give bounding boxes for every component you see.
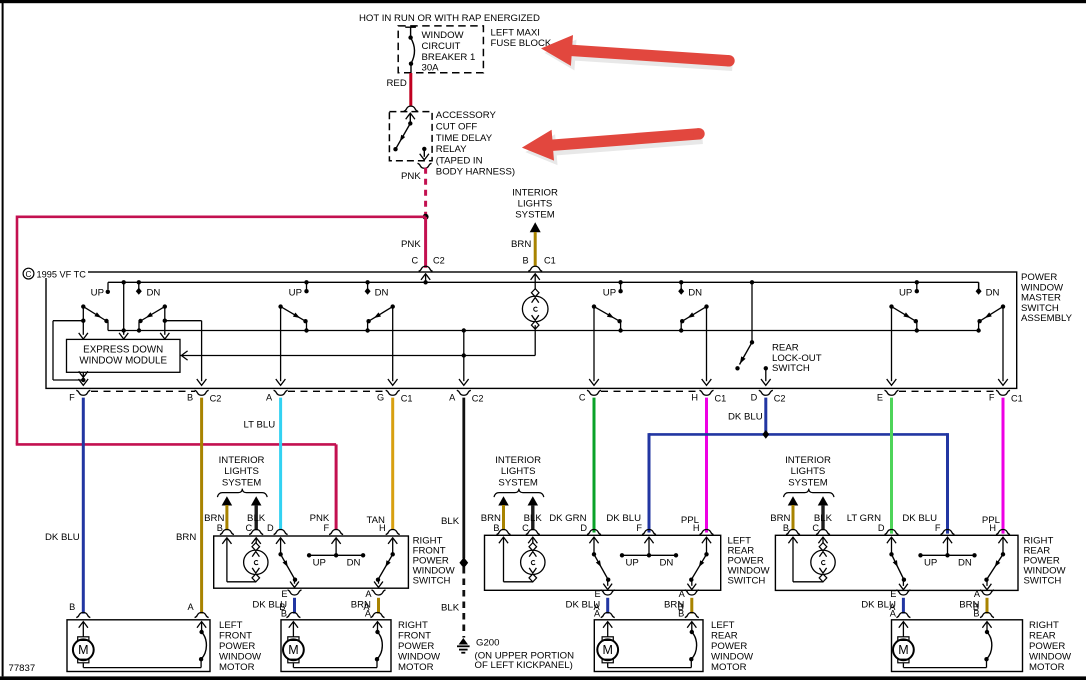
svg-text:REAR: REAR (711, 631, 738, 642)
svg-text:C: C (26, 270, 32, 279)
svg-text:RELAY: RELAY (436, 144, 467, 155)
svg-text:F: F (636, 523, 642, 533)
svg-text:DK BLU: DK BLU (728, 412, 763, 423)
wire DK BLU master D to rear switches F (649, 398, 948, 534)
master pin F (69, 390, 90, 402)
svg-text:B: B (69, 602, 75, 612)
svg-text:C1: C1 (1011, 393, 1023, 403)
label POWER WINDOW MASTER SWITCH ASSEMBLY (1021, 272, 1073, 324)
circuit breaker box (LEFT MAXI FUSE BLOCK) (398, 26, 483, 73)
LEFT REAR POWER WINDOW MOTOR box (594, 620, 703, 672)
label LEFT REAR POWER WINDOW SWITCH (728, 536, 771, 587)
wire module loop left bracket (53, 321, 83, 380)
switch illumination bulb (793, 537, 835, 582)
svg-text:G200: G200 (476, 638, 499, 649)
svg-text:BRN: BRN (511, 239, 531, 250)
svg-text:SYSTEM: SYSTEM (222, 477, 261, 488)
svg-text:POWER: POWER (711, 641, 747, 652)
switch up blade from pin H (983, 537, 1006, 589)
svg-text:UP: UP (91, 287, 104, 298)
label RIGHT REAR POWER WINDOW SWITCH (1024, 536, 1067, 587)
label REAR LOCK-OUT SWITCH (772, 343, 822, 375)
svg-text:ASSEMBLY: ASSEMBLY (1021, 313, 1073, 324)
svg-text:B: B (279, 602, 285, 612)
svg-text:M: M (602, 643, 612, 657)
express down window module (67, 339, 181, 372)
label LEFT FRONT POWER WINDOW MOTOR (219, 620, 262, 673)
master module bus (181, 351, 536, 360)
svg-text:POWER: POWER (1029, 641, 1065, 652)
interior lights system feed (top) (511, 188, 558, 266)
svg-text:UP: UP (924, 558, 937, 569)
svg-text:DN: DN (660, 558, 674, 569)
svg-text:C1: C1 (715, 393, 727, 403)
svg-text:B: B (187, 392, 193, 402)
wire PPL master F to right rear switch H (1002, 398, 1005, 534)
svg-text:PPL: PPL (681, 515, 700, 526)
svg-text:WINDOW: WINDOW (422, 30, 465, 41)
svg-text:MOTOR: MOTOR (711, 662, 747, 673)
wire PNK branch to right front switch (16, 216, 426, 530)
motor pins (594, 602, 699, 628)
label HOT IN RUN OR WITH RAP ENERGIZED (359, 13, 540, 24)
svg-text:OF LEFT KICKPANEL): OF LEFT KICKPANEL) (475, 660, 573, 671)
svg-text:A: A (449, 392, 456, 402)
driver window switch UP contact (91, 287, 110, 298)
interior lights system feed (770, 455, 834, 535)
window switch DN contact (678, 280, 702, 298)
switch illumination bulb (227, 538, 268, 582)
svg-text:RED: RED (387, 78, 407, 89)
svg-text:LIGHTS: LIGHTS (791, 466, 826, 477)
window switch DN blade (976, 304, 1005, 332)
svg-text:INTERIOR: INTERIOR (495, 455, 541, 466)
master pin A (266, 390, 288, 402)
wire DK BLU master F to left front motor (45, 398, 83, 614)
relay output contact (420, 147, 429, 160)
svg-text:DK BLU: DK BLU (902, 513, 937, 524)
svg-text:LT GRN: LT GRN (847, 513, 881, 524)
motor armature (73, 622, 201, 668)
window switch DN contact (976, 282, 1000, 298)
svg-text:CIRCUIT: CIRCUIT (422, 41, 461, 52)
svg-text:C: C (812, 523, 819, 533)
svg-text:WINDOW: WINDOW (398, 652, 441, 663)
svg-text:C: C (412, 256, 419, 266)
svg-text:UP: UP (899, 287, 912, 298)
motor pins (69, 602, 208, 628)
motor armature (597, 622, 691, 668)
svg-text:E: E (595, 589, 601, 599)
lock-out output to pin D (761, 366, 771, 385)
copyright 1995 VF TC (22, 267, 88, 280)
bulb to ground bus wire (534, 325, 536, 355)
driver switch DN blade (122, 304, 168, 332)
svg-text:LIGHTS: LIGHTS (224, 466, 259, 477)
master pin B C2 (187, 390, 221, 403)
switch up blade from pin H (687, 537, 708, 589)
svg-text:C2: C2 (774, 393, 786, 403)
label RIGHT FRONT POWER WINDOW MOTOR (398, 620, 441, 673)
switch down blade from pin D (889, 537, 908, 589)
svg-text:B: B (783, 523, 789, 533)
svg-text:A: A (365, 589, 372, 599)
svg-text:E: E (877, 392, 883, 402)
svg-text:DN: DN (347, 558, 361, 569)
wire to motor right (351, 598, 379, 619)
svg-text:DK GRN: DK GRN (549, 513, 586, 524)
window switch UP blade (889, 304, 919, 332)
svg-text:77837: 77837 (9, 663, 36, 674)
wire PNK dashed from relay (401, 168, 426, 215)
pin B entry arrow and lamp feed (531, 274, 540, 290)
switch illumination bulb (504, 537, 546, 582)
power window master switch assembly box (46, 272, 1017, 388)
svg-text:(TAPED IN: (TAPED IN (436, 155, 483, 166)
wire to motor right (959, 598, 987, 619)
svg-text:UP: UP (603, 287, 616, 298)
svg-text:PNK: PNK (310, 513, 330, 524)
ground G200 (457, 638, 574, 672)
svg-text:INTERIOR: INTERIOR (785, 455, 831, 466)
relay internal switch (393, 113, 415, 151)
BLK ground pin wire inside master (459, 328, 469, 385)
motor winding arc (199, 622, 207, 668)
svg-text:CUT OFF: CUT OFF (436, 122, 478, 133)
wire pivot to output pin (887, 307, 897, 386)
svg-text:EXPRESS DOWN: EXPRESS DOWN (83, 344, 163, 355)
svg-text:BREAKER 1: BREAKER 1 (422, 52, 476, 63)
svg-text:A: A (187, 602, 194, 612)
wire to motor left (566, 598, 608, 619)
svg-text:RIGHT: RIGHT (398, 620, 428, 631)
svg-text:LEFT: LEFT (711, 620, 735, 631)
svg-text:TIME DELAY: TIME DELAY (436, 133, 493, 144)
svg-text:WINDOW: WINDOW (219, 652, 262, 663)
master illumination bulb (522, 289, 548, 329)
switch pin entry arrows (499, 537, 711, 543)
svg-text:SYSTEM: SYSTEM (515, 210, 554, 221)
label LEFT REAR POWER WINDOW MOTOR (711, 620, 754, 673)
wire pivot to output pin (702, 307, 712, 386)
red callout arrow 2 (522, 128, 705, 165)
svg-text:POWER: POWER (398, 641, 434, 652)
svg-text:D: D (878, 523, 885, 533)
svg-text:C: C (522, 523, 529, 533)
svg-text:E: E (890, 589, 896, 599)
svg-text:A: A (889, 602, 896, 612)
switch down blade from pin D (278, 538, 299, 587)
svg-text:DN: DN (375, 287, 389, 298)
switch pin entry arrows (788, 537, 1007, 543)
svg-text:SWITCH: SWITCH (413, 576, 451, 587)
wire PNK to master switch pin C (401, 217, 426, 268)
svg-text:POWER: POWER (219, 641, 255, 652)
svg-text:A: A (974, 589, 981, 599)
label LEFT MAXI FUSE BLOCK (491, 28, 552, 49)
svg-text:D: D (580, 523, 587, 533)
switch pin entry arrows (222, 538, 397, 544)
svg-text:WINDOW MODULE: WINDOW MODULE (79, 356, 167, 367)
wire BRN master B to left front motor (176, 398, 202, 614)
svg-text:DN: DN (986, 287, 1000, 298)
LEFT REAR POWER WINDOW SWITCH box (485, 535, 721, 590)
driver switch pivot wires to module (79, 307, 170, 339)
switch top pin labels (549, 513, 713, 535)
svg-text:A: A (363, 602, 370, 612)
svg-text:DN: DN (958, 558, 972, 569)
switch UP DN rocker bar (620, 537, 678, 568)
svg-text:DK BLU: DK BLU (606, 513, 641, 524)
svg-text:LIGHTS: LIGHTS (501, 466, 536, 477)
window switch UP contact (289, 280, 309, 298)
svg-text:B: B (217, 523, 223, 533)
svg-text:SYSTEM: SYSTEM (788, 477, 827, 488)
svg-text:INTERIOR: INTERIOR (512, 188, 558, 199)
master pin H C1 (691, 390, 726, 403)
wire pivot to output pin (998, 307, 1008, 386)
switch up blade from pin H (374, 538, 395, 587)
svg-text:B: B (523, 256, 529, 266)
master pin G C1 (377, 390, 412, 403)
svg-text:C1: C1 (401, 393, 413, 403)
svg-text:SWITCH: SWITCH (1024, 576, 1062, 587)
RIGHT REAR POWER WINDOW SWITCH box (775, 535, 1018, 590)
svg-text:C2: C2 (472, 393, 484, 403)
wire LT GRN master E to right rear switch D (890, 398, 893, 534)
connector group dashes (91, 390, 996, 392)
wire pivot to output pin (388, 307, 398, 386)
master pin E (877, 390, 899, 402)
svg-text:UP: UP (289, 287, 302, 298)
svg-text:C2: C2 (433, 256, 445, 266)
motor winding arc (984, 622, 992, 668)
svg-text:G: G (377, 392, 384, 402)
motor winding arc (375, 622, 383, 668)
label RIGHT FRONT POWER WINDOW SWITCH (413, 536, 456, 587)
window switch DN blade (365, 304, 395, 332)
svg-text:SYSTEM: SYSTEM (498, 477, 537, 488)
wire pivot to output pin (589, 307, 599, 386)
master pin C (579, 390, 601, 402)
svg-text:D: D (751, 392, 758, 402)
svg-text:INTERIOR: INTERIOR (219, 455, 265, 466)
svg-text:PNK: PNK (401, 171, 421, 182)
motor pins (889, 602, 994, 628)
label WINDOW CIRCUIT BREAKER 1 30A (422, 30, 476, 73)
window switch UP blade (278, 304, 308, 332)
svg-text:C: C (579, 392, 586, 402)
window switch DN blade (679, 304, 709, 332)
master contact bus (108, 330, 979, 332)
svg-text:FRONT: FRONT (398, 631, 431, 642)
wire pivot bus to pin B (165, 321, 207, 386)
svg-text:LIGHTS: LIGHTS (518, 199, 553, 210)
wire to motor left (861, 598, 903, 619)
switch UP DN rocker bar (307, 538, 365, 569)
express down module feed wire (119, 280, 128, 339)
pin C C2 of master switch (412, 256, 445, 272)
svg-text:M: M (288, 643, 298, 657)
wire DK GRN master C to left rear switch D (593, 398, 596, 533)
svg-text:D: D (267, 523, 274, 533)
RIGHT FRONT POWER WINDOW SWITCH box (214, 536, 409, 588)
svg-text:PPL: PPL (982, 515, 1001, 526)
svg-text:F: F (69, 392, 75, 402)
svg-text:C1: C1 (544, 256, 556, 266)
svg-text:B: B (973, 602, 979, 612)
diagram number 77837 (9, 663, 36, 674)
motor armature (893, 622, 987, 668)
circuit breaker CB1 30A symbol (405, 27, 416, 73)
motor winding arc (689, 622, 697, 668)
switch output pins E and A (281, 589, 385, 599)
svg-text:TAN: TAN (367, 515, 386, 526)
wire RED from breaker to relay (387, 73, 411, 106)
svg-text:M: M (898, 643, 908, 657)
accessory cut off time delay relay box (389, 112, 432, 161)
master pin F C1 (989, 390, 1023, 403)
wire to motor right (664, 598, 692, 619)
LEFT FRONT POWER WINDOW MOTOR box (67, 620, 210, 672)
switch top pin labels (847, 513, 1010, 535)
svg-text:BRN: BRN (176, 532, 196, 543)
junction of PNK wire (423, 214, 429, 220)
wire pivot to output pin (276, 307, 286, 386)
connector at relay input (404, 106, 418, 111)
wire LT BLU master A to right front switch D (244, 398, 281, 530)
wire BLK master A to ground (441, 398, 468, 638)
switch UP DN rocker bar (918, 537, 976, 568)
switch output pins E and A (890, 589, 994, 599)
svg-text:BLK: BLK (441, 516, 460, 527)
wire TAN master G to right front switch H (391, 398, 394, 530)
svg-text:M: M (78, 643, 88, 657)
svg-text:LEFT: LEFT (219, 620, 243, 631)
motor armature (283, 622, 377, 668)
red callout arrow 1 (541, 35, 735, 71)
label RIGHT REAR POWER WINDOW MOTOR (1029, 620, 1072, 673)
svg-text:MOTOR: MOTOR (398, 662, 434, 673)
svg-text:DN: DN (688, 287, 702, 298)
connector at relay output (418, 163, 432, 168)
svg-text:WINDOW: WINDOW (711, 652, 754, 663)
svg-text:REAR: REAR (1029, 631, 1056, 642)
svg-text:UP: UP (313, 558, 326, 569)
interior lights system feed (481, 455, 544, 535)
svg-text:HOT IN RUN OR WITH RAP ENERGIZ: HOT IN RUN OR WITH RAP ENERGIZED (359, 13, 540, 24)
svg-text:B: B (493, 523, 499, 533)
wire PPL master H to left rear switch H (705, 398, 708, 533)
svg-text:SWITCH: SWITCH (772, 363, 810, 374)
svg-text:MOTOR: MOTOR (1029, 662, 1065, 673)
window switch UP contact (899, 280, 919, 298)
window switch UP blade (592, 304, 623, 332)
window switch UP contact (603, 280, 623, 298)
rear lock-out switch (735, 280, 754, 370)
svg-text:FUSE BLOCK: FUSE BLOCK (491, 38, 552, 49)
master switch supply bus (108, 282, 979, 289)
svg-text:F: F (323, 523, 329, 533)
module output to pin F (79, 371, 89, 385)
svg-text:30A: 30A (422, 63, 440, 74)
driver window switch DN contact (136, 280, 161, 298)
label ACCESSORY CUT OFF TIME DELAY RELAY (436, 110, 515, 178)
svg-text:BODY HARNESS): BODY HARNESS) (436, 167, 515, 178)
svg-text:A: A (594, 602, 601, 612)
svg-text:1995 VF TC: 1995 VF TC (37, 270, 87, 280)
window switch DN contact (365, 280, 389, 298)
svg-text:E: E (281, 589, 287, 599)
motor pins (279, 602, 384, 628)
svg-text:PNK: PNK (401, 239, 421, 250)
pin B C1 of master switch (523, 256, 556, 272)
pin C entry arrow (421, 274, 430, 285)
svg-text:MOTOR: MOTOR (219, 662, 255, 673)
svg-text:A: A (266, 392, 273, 402)
svg-text:C: C (246, 523, 253, 533)
svg-text:H: H (691, 392, 698, 402)
svg-text:DK BLU: DK BLU (45, 532, 80, 543)
wire to motor left (252, 598, 294, 619)
svg-text:WINDOW: WINDOW (1029, 652, 1072, 663)
switch top pin labels (267, 513, 400, 535)
svg-text:RIGHT: RIGHT (1029, 620, 1059, 631)
interior lights system feed (204, 455, 267, 535)
switch output pins E and A (595, 589, 699, 599)
svg-text:UP: UP (626, 558, 639, 569)
RIGHT REAR POWER WINDOW MOTOR box (892, 620, 1023, 672)
master pin D C2 (751, 390, 786, 403)
svg-text:F: F (989, 392, 995, 402)
svg-text:SWITCH: SWITCH (728, 576, 766, 587)
switch down blade from pin D (592, 537, 612, 589)
svg-text:DN: DN (147, 287, 161, 298)
svg-text:BLK: BLK (441, 603, 460, 614)
svg-text:ACCESSORY: ACCESSORY (436, 110, 497, 121)
svg-text:C2: C2 (210, 393, 222, 403)
svg-text:F: F (935, 523, 941, 533)
master pin A C2 (449, 390, 483, 403)
RIGHT FRONT POWER WINDOW MOTOR box (281, 620, 391, 672)
driver switch UP blade (81, 304, 109, 330)
svg-text:FRONT: FRONT (219, 631, 252, 642)
svg-text:B: B (678, 602, 684, 612)
svg-text:LT BLU: LT BLU (244, 420, 276, 431)
svg-text:A: A (679, 589, 686, 599)
